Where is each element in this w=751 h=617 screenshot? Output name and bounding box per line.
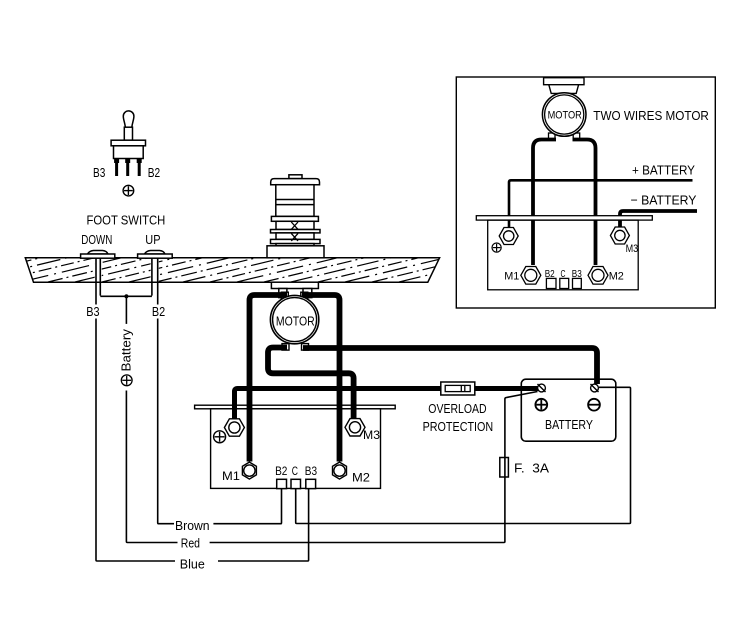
thick wire: motor to M3 [268, 348, 354, 420]
wire: UP inner leg [151, 258, 153, 295]
svg-text:B2: B2 [148, 166, 160, 180]
terminal B2 square [277, 479, 287, 488]
wire: Red right segment to fuse F3A [210, 477, 505, 543]
inset terminal B3 square [573, 278, 582, 288]
wire: battery-positive vertical (lower) to Red [126, 391, 177, 543]
svg-text:BATTERY: BATTERY [545, 418, 594, 432]
toggle handle [123, 111, 134, 127]
battery box [521, 379, 616, 441]
svg-text:FOOT SWITCH: FOOT SWITCH [87, 214, 166, 228]
svg-text:M1: M1 [222, 471, 240, 483]
inset border [456, 77, 715, 308]
svg-text:B2: B2 [152, 305, 165, 319]
svg-text:Blue: Blue [180, 557, 205, 572]
svg-text:UP: UP [145, 233, 160, 247]
svg-text:B3: B3 [305, 464, 318, 478]
screw symbol (control box plus) [214, 431, 226, 443]
toggle body [114, 146, 144, 159]
inset wire: plus battery [509, 180, 693, 227]
svg-text:C: C [292, 464, 298, 478]
inset plus stud [499, 228, 518, 245]
inset screw symbol [492, 243, 501, 252]
overload protection fuse [441, 382, 475, 395]
junction dot [124, 294, 128, 298]
svg-text:F. 3A: F. 3A [514, 461, 549, 476]
wire: DOWN inner leg [99, 258, 101, 295]
windlass capstan [267, 175, 324, 258]
fuse F 3A [500, 458, 509, 478]
svg-text:M2: M2 [352, 473, 370, 485]
inset wire: minus battery [620, 211, 697, 227]
thick wire: motor to M1 [250, 295, 288, 462]
svg-text:Battery: Battery [120, 328, 134, 371]
battery plus screw terminal [538, 384, 546, 392]
wire: UP outer leg [157, 258, 159, 304]
deck (hatched board) [0, 257, 501, 282]
stud M3 [345, 419, 365, 436]
toggle pins [114, 159, 142, 177]
svg-text:M3: M3 [626, 243, 639, 255]
wire: C terminal to battery minus [296, 387, 631, 523]
motor terminals (lugs) [281, 292, 308, 350]
battery minus symbol [588, 399, 600, 411]
svg-text:PROTECTION: PROTECTION [423, 420, 494, 434]
svg-text:Red: Red [181, 536, 200, 551]
white channel under right foot switch [151, 258, 159, 282]
thick wire: motor to battery minus [303, 348, 597, 384]
svg-text:B3: B3 [86, 305, 99, 319]
foot switch DOWN [81, 251, 115, 259]
svg-text:− BATTERY: − BATTERY [631, 193, 697, 208]
inset stud M3 [610, 227, 629, 244]
screw symbol on battery wire [121, 375, 132, 386]
svg-text:M3: M3 [363, 430, 380, 442]
wire: DOWN outer leg [95, 258, 97, 304]
svg-text:M1: M1 [504, 271, 519, 283]
thick wire: plus stud to battery plus via overload protection [235, 389, 539, 420]
wire: battery plus to fuse F3A [505, 392, 538, 478]
battery minus screw terminal [591, 384, 599, 392]
windlass gearbox below deck [271, 282, 318, 297]
white channel under left foot switch [95, 258, 102, 282]
inset mounting plate [476, 216, 652, 220]
terminal C square [291, 479, 301, 488]
wire: Blue right segment to B3 terminal [218, 489, 309, 561]
inset motor mount [544, 78, 584, 94]
inset motor lugs [549, 133, 580, 140]
inset motor [542, 93, 586, 137]
stud M1 [242, 462, 256, 479]
motor M [270, 295, 318, 343]
inset terminal C square [560, 278, 569, 288]
wire: battery-positive vertical (top part) [125, 296, 127, 324]
svg-text:B2: B2 [275, 464, 288, 478]
svg-text:M2: M2 [609, 271, 624, 283]
toggle bezel [111, 140, 145, 146]
plus stud (control box) [224, 419, 244, 436]
stud M2 [333, 462, 347, 479]
svg-text:DOWN: DOWN [81, 233, 112, 247]
inset wire: motor to M2 [573, 140, 596, 266]
toggle stem [124, 127, 132, 140]
control box mounting plate [195, 405, 396, 409]
inset stud M1 [521, 267, 541, 285]
svg-text:MOTOR: MOTOR [548, 110, 582, 122]
svg-text:+ BATTERY: + BATTERY [632, 162, 695, 177]
inset wire: motor to M1 [533, 140, 556, 266]
control box body [211, 409, 381, 489]
wire: B2 vertical to Brown [158, 319, 174, 524]
inset box body [488, 220, 639, 290]
terminal B3 square [306, 479, 316, 488]
wire: common bridge [100, 295, 152, 297]
thick wire: motor to M2 [302, 295, 340, 462]
inset terminal B2 square [546, 278, 556, 288]
wire: B3 vertical to Blue [96, 319, 175, 562]
screw symbol below toggle [123, 185, 134, 196]
foot switch legs and common bridge [96, 258, 158, 304]
svg-text:OVERLOAD: OVERLOAD [428, 402, 486, 416]
svg-text:TWO WIRES MOTOR: TWO WIRES MOTOR [593, 108, 709, 123]
foot switch UP [138, 251, 173, 259]
toggle switch [111, 111, 145, 159]
inset stud M2 [588, 267, 608, 285]
deck outline [25, 258, 439, 282]
wire: Brown right segment to B2 terminal [213, 489, 281, 524]
svg-text:MOTOR: MOTOR [276, 313, 315, 328]
svg-text:B3: B3 [93, 166, 105, 180]
battery plus symbol [535, 399, 547, 411]
svg-text:Brown: Brown [175, 518, 210, 533]
